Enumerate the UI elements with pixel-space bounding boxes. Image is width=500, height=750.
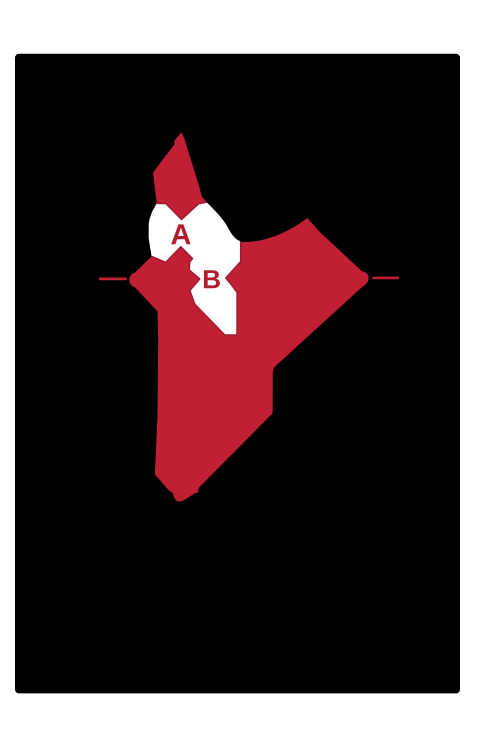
county border strokes (white/red boundaries only)	[157, 202, 207, 219]
left dash	[99, 278, 127, 281]
letter B	[204, 270, 220, 288]
black panel	[15, 54, 460, 694]
red country landmass	[129, 132, 368, 501]
right dash	[373, 277, 400, 280]
letter A	[171, 224, 190, 244]
white counties A+B	[149, 202, 241, 335]
